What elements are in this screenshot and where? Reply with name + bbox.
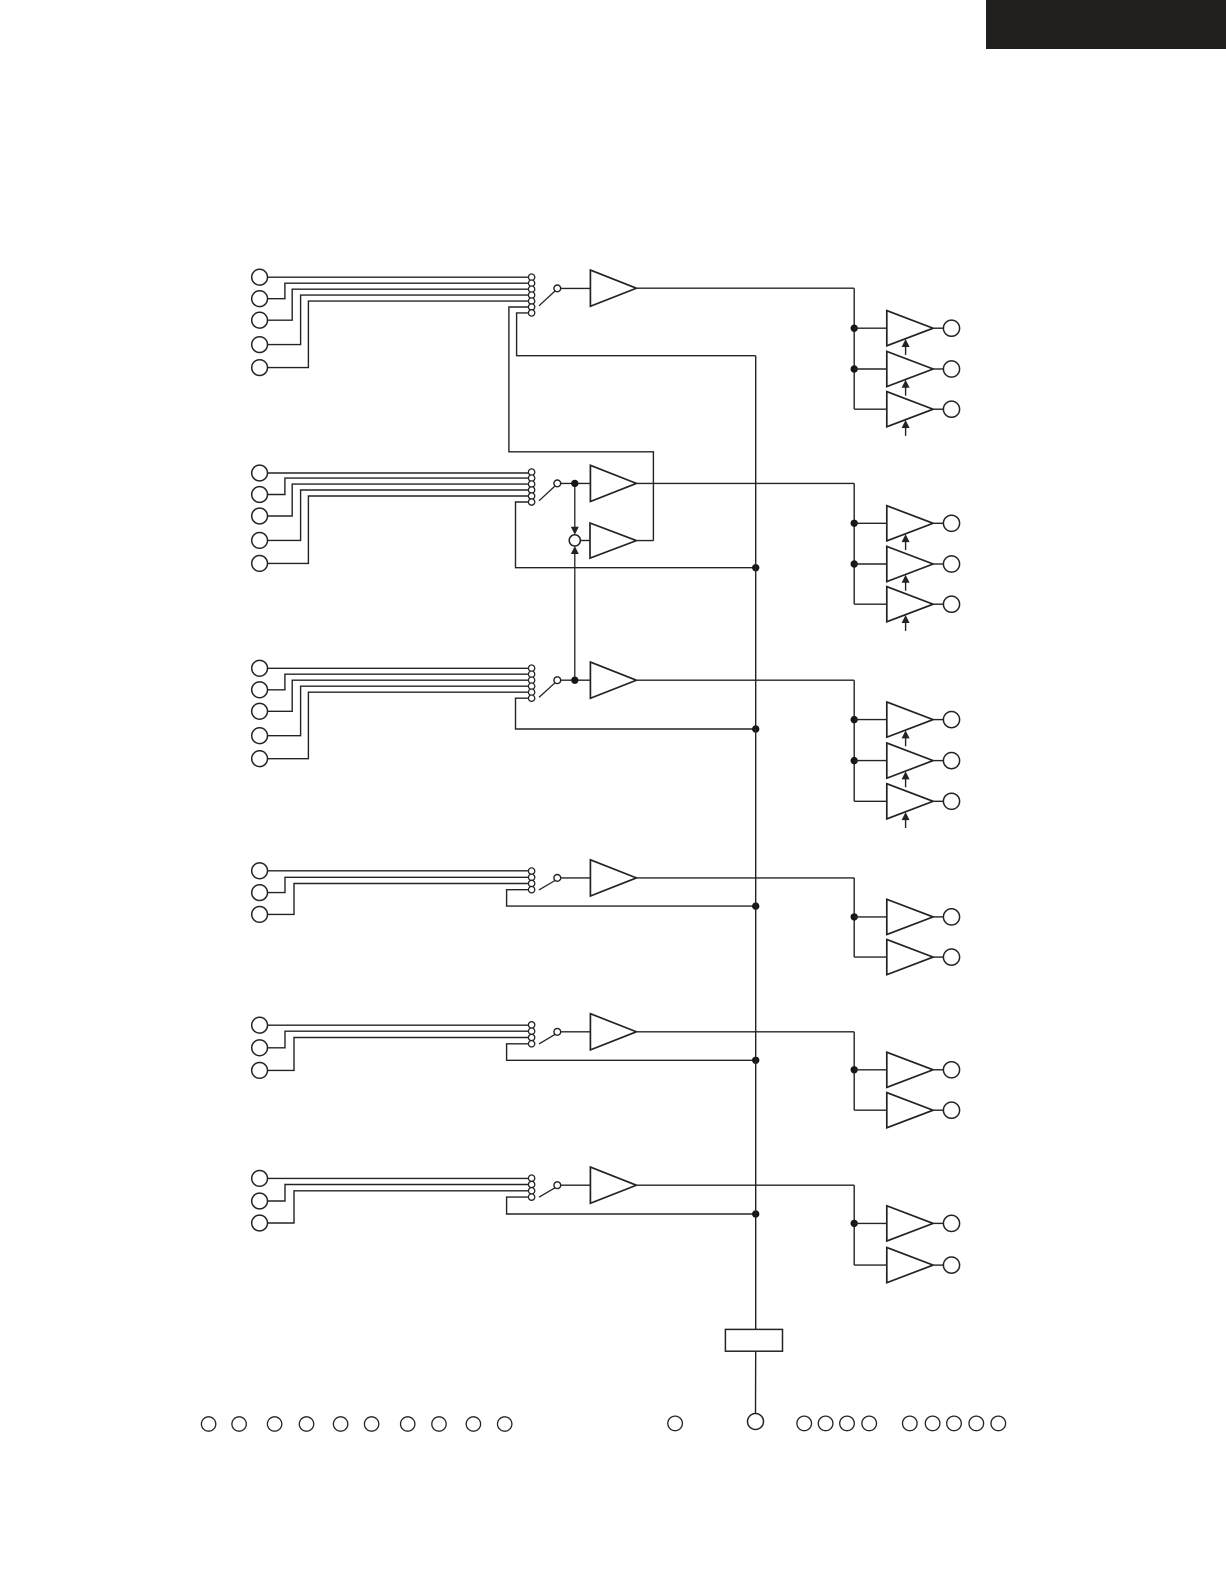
switch S3 contact 4 [528, 683, 534, 689]
switch S2 contact 1 [528, 469, 534, 475]
wire U1 output to line-out group 1 [636, 287, 854, 289]
switch S5 arm [539, 1034, 555, 1044]
wire U2A output [933, 522, 943, 524]
switch S6 contact 4 [528, 1194, 534, 1200]
node group 1 tap 1 [851, 325, 858, 332]
level control arrow U3B [905, 778, 907, 787]
wire group 2 tap 1 to buffer [854, 522, 887, 524]
wire S3 bottom contact to record bus [516, 698, 756, 729]
output buffer U1B [887, 351, 933, 386]
wire group 4 tap 2 to buffer [854, 956, 887, 958]
wire J6-3 to switch S6 contact 3 [268, 1191, 529, 1223]
wire U1B output [933, 368, 943, 370]
output buffer U1A [887, 311, 933, 346]
wire U5B output [933, 1109, 943, 1111]
level control arrow U2A [905, 541, 907, 550]
input jack J3-5 [252, 751, 268, 767]
output jack group 1-1 [943, 320, 959, 336]
bottom terminal L3 [267, 1417, 281, 1431]
output buffer U2A [887, 506, 933, 541]
input jack J4-2 [252, 885, 268, 901]
wire S4 bottom contact to record bus [507, 890, 756, 906]
buffer amp U1 [590, 270, 636, 306]
level control arrow U2C [905, 622, 907, 631]
wire U6A output [933, 1222, 943, 1224]
wire U6 output to line-out group 6 [636, 1184, 854, 1186]
node B (S3 pole junction) [571, 677, 578, 684]
input jack J2-4 [252, 533, 268, 549]
wire J3-4 to switch S3 contact 4 [268, 686, 529, 736]
wire S1 contact 6 tape monitor return loop [509, 307, 654, 541]
output buffer U3C [887, 784, 933, 819]
node group 3 tap 2 [851, 757, 858, 764]
arrowhead into changeover switch (from below) [571, 546, 579, 554]
input jack J1-5 [252, 360, 268, 376]
switch S3 contact 5 [528, 689, 534, 695]
switch S5 contact 1 [528, 1022, 534, 1028]
switch S6 contact 2 [528, 1181, 534, 1187]
wire J3-3 to switch S3 contact 3 [268, 680, 529, 711]
node record bus / S2 feed [752, 564, 759, 571]
switch S2 contact 2 [528, 475, 534, 481]
bottom terminal M1 [668, 1416, 683, 1431]
wire group 1 tap 3 to buffer [854, 408, 887, 410]
wire group 1 tap 1 to buffer [854, 327, 887, 329]
switch S2 contact 6 [528, 499, 534, 505]
wire group 3 tap 1 to buffer [854, 719, 887, 721]
wire S2 pole to buffer U2 [561, 482, 591, 484]
bottom terminal L6 [364, 1417, 378, 1431]
buffer amp U6 [590, 1167, 636, 1203]
output jack group 2-2 [943, 556, 959, 572]
wire changeover switch to node B [574, 554, 576, 677]
switch S3 arm [539, 683, 555, 698]
switch S2 arm [539, 486, 555, 501]
wire group 6 tap 1 to buffer [854, 1222, 887, 1224]
bottom terminal L4 [299, 1417, 313, 1431]
wire U6B output [933, 1264, 943, 1266]
input jack J3-4 [252, 728, 268, 744]
switch S1 contact 7 [528, 310, 534, 316]
switch S2 contact 3 [528, 481, 534, 487]
bottom terminal L7 [401, 1417, 415, 1431]
input jack J1-3 [252, 312, 268, 328]
switch S1 pole [554, 285, 561, 292]
wire S4 pole to buffer U4 [561, 877, 591, 879]
output buffer U2C [887, 587, 933, 622]
node record bus / S4 feed [752, 902, 759, 909]
node record bus / S5 feed [752, 1057, 759, 1064]
switch S1 contact 6 [528, 304, 534, 310]
wire S1 contact 7 to record bus [517, 313, 756, 356]
output jack group 2-1 [943, 515, 959, 531]
bottom terminal P4 [862, 1416, 877, 1431]
output buffer U3B [887, 743, 933, 778]
bottom terminal L10 [498, 1417, 512, 1431]
node group 2 tap 2 [851, 560, 858, 567]
wire J3-2 to switch S3 contact 2 [268, 674, 529, 690]
wire S5 pole to buffer U5 [561, 1031, 591, 1033]
output buffer U4A [887, 899, 933, 934]
wire J1-5 to switch S1 contact 5 [268, 301, 529, 368]
input jack J3-3 [252, 703, 268, 719]
output buffer U6B [887, 1248, 933, 1283]
wire J1-1 to switch S1 contact 1 [268, 276, 529, 278]
bottom terminal P3 [840, 1416, 855, 1431]
wire U3 output to line-out group 3 [636, 679, 854, 681]
switch S4 arm [539, 881, 555, 890]
switch S1 contact 3 [528, 286, 534, 292]
switch S6 contact 3 [528, 1188, 534, 1194]
switch S5 contact 3 [528, 1034, 534, 1040]
wire line-out group 5 distribution [853, 1032, 855, 1110]
switch S4 contact 1 [528, 868, 534, 874]
output jack group 5-2 [943, 1102, 959, 1118]
wire J5-3 to switch S5 contact 3 [268, 1038, 529, 1071]
input jack J6-3 [252, 1215, 268, 1231]
wire J2-1 to switch S2 contact 1 [268, 472, 529, 474]
input jack J6-2 [252, 1193, 268, 1209]
output buffer U6A [887, 1206, 933, 1241]
switch S3 contact 6 [528, 695, 534, 701]
input jack J3-2 [252, 682, 268, 698]
output buffer U5A [887, 1052, 933, 1087]
wire S2 bottom contact to record bus [516, 502, 756, 568]
wire S5 bottom contact to record bus [507, 1044, 756, 1061]
wire U4 output to line-out group 4 [636, 877, 854, 879]
terminal under T1 [748, 1414, 764, 1430]
wire J1-4 to switch S1 contact 4 [268, 295, 529, 345]
wire J4-3 to switch S4 contact 3 [268, 884, 529, 915]
node group 1 tap 2 [851, 365, 858, 372]
input jack J2-5 [252, 556, 268, 572]
node A (S2 pole junction) [571, 480, 578, 487]
switch S2 contact 5 [528, 493, 534, 499]
title block (black masked header) [986, 0, 1226, 49]
wire group 3 tap 2 to buffer [854, 760, 887, 762]
wire group 4 tap 1 to buffer [854, 916, 887, 918]
wire J2-3 to switch S2 contact 3 [268, 484, 529, 516]
switch S2 pole [554, 480, 561, 487]
wire J1-2 to switch S1 contact 2 [268, 283, 529, 299]
switch S1 contact 2 [528, 280, 534, 286]
wire group 5 tap 1 to buffer [854, 1069, 887, 1071]
switch S4 contact 2 [528, 874, 534, 880]
switch S4 contact 4 [528, 887, 534, 893]
wire J2-2 to switch S2 contact 2 [268, 478, 529, 494]
wire S3 pole to buffer U3 [561, 679, 591, 681]
wire group 1 tap 2 to buffer [854, 368, 887, 370]
buffer amp U5 [590, 1014, 636, 1050]
wire U4B output [933, 956, 943, 958]
wire U2B output [933, 563, 943, 565]
wire group 5 tap 2 to buffer [854, 1109, 887, 1111]
node group 6 tap 1 [851, 1220, 858, 1227]
power transformer T1 [725, 1329, 782, 1351]
wire U3B output [933, 760, 943, 762]
output jack group 6-2 [943, 1257, 959, 1273]
bottom terminal L9 [466, 1417, 480, 1431]
bottom terminal P1 [797, 1416, 812, 1431]
node record bus / S6 feed [752, 1210, 759, 1217]
output jack group 4-2 [943, 949, 959, 965]
wire J1-3 to switch S1 contact 3 [268, 289, 529, 320]
output buffer U3A [887, 702, 933, 737]
wire J4-1 to switch S4 contact 1 [268, 870, 529, 872]
output jack group 3-1 [943, 712, 959, 728]
switch S5 pole [554, 1028, 561, 1035]
switch S5 contact 2 [528, 1028, 534, 1034]
output buffer U5B [887, 1093, 933, 1128]
switch S3 contact 3 [528, 677, 534, 683]
wire U2R output up to S1 contact 6 loop [636, 540, 653, 542]
wire J6-1 to switch S6 contact 1 [268, 1177, 529, 1179]
level control arrow U1C [905, 427, 907, 436]
bottom terminal Q3 [947, 1416, 962, 1431]
wire line-out group 3 distribution [853, 680, 855, 801]
input jack J2-3 [252, 508, 268, 524]
output jack group 1-3 [943, 401, 959, 417]
wire S6 pole to buffer U6 [561, 1184, 591, 1186]
wire J4-2 to switch S4 contact 2 [268, 877, 529, 892]
output jack group 2-3 [943, 596, 959, 612]
node group 3 tap 1 [851, 716, 858, 723]
input jack J3-1 [252, 660, 268, 676]
wire U2 output to line-out group 2 [636, 482, 854, 484]
output buffer U2B [887, 546, 933, 581]
record bus wire [755, 356, 757, 1330]
buffer amp U3 [590, 662, 636, 698]
wire U1A output [933, 327, 943, 329]
changeover switch SW-M common [569, 535, 580, 546]
wire J3-5 to switch S3 contact 5 [268, 692, 529, 759]
wire J6-2 to switch S6 contact 2 [268, 1185, 529, 1202]
switch S1 arm [539, 291, 555, 306]
input jack J2-2 [252, 487, 268, 503]
wire line-out group 1 distribution [853, 288, 855, 409]
switch S6 arm [539, 1188, 555, 1197]
switch S4 pole [554, 875, 561, 882]
bottom terminal L1 [201, 1417, 215, 1431]
node group 5 tap 1 [851, 1066, 858, 1073]
output buffer U1C [887, 392, 933, 427]
wire group 2 tap 3 to buffer [854, 603, 887, 605]
input jack J4-3 [252, 907, 268, 923]
output jack group 6-1 [943, 1215, 959, 1231]
switch S6 pole [554, 1182, 561, 1189]
level control arrow U1B [905, 387, 907, 396]
wire S6 bottom contact to record bus [507, 1197, 756, 1214]
input jack J6-1 [252, 1171, 268, 1187]
wire J2-5 to switch S2 contact 5 [268, 496, 529, 563]
bottom terminal L8 [432, 1417, 446, 1431]
bottom terminal Q1 [903, 1416, 918, 1431]
bottom terminal Q4 [969, 1416, 984, 1431]
wire U5 output to line-out group 5 [636, 1031, 854, 1033]
input jack J4-1 [252, 863, 268, 879]
level control arrow U3A [905, 737, 907, 746]
output jack group 4-1 [943, 909, 959, 925]
wire record bus to T1 [755, 1351, 757, 1413]
input jack J5-2 [252, 1040, 268, 1056]
bottom terminal L2 [232, 1417, 246, 1431]
input jack J1-1 [252, 269, 268, 285]
switch S1 contact 5 [528, 298, 534, 304]
switch S4 contact 3 [528, 880, 534, 886]
bottom terminal L5 [333, 1417, 347, 1431]
input jack J2-1 [252, 465, 268, 481]
switch S1 contact 4 [528, 292, 534, 298]
wire changeover switch to tape return buffer U2R input [580, 540, 590, 542]
wire U3C output [933, 800, 943, 802]
buffer amp U2 [590, 465, 636, 501]
wire group 6 tap 2 to buffer [854, 1264, 887, 1266]
switch S3 contact 2 [528, 671, 534, 677]
output jack group 1-2 [943, 361, 959, 377]
wire line-out group 4 distribution [853, 878, 855, 957]
switch S3 contact 1 [528, 665, 534, 671]
switch S1 contact 1 [528, 274, 534, 280]
input jack J1-4 [252, 337, 268, 353]
switch S5 contact 4 [528, 1041, 534, 1047]
wire U1C output [933, 408, 943, 410]
wire U5A output [933, 1069, 943, 1071]
node record bus / S3 feed [752, 725, 759, 732]
output jack group 5-1 [943, 1062, 959, 1078]
bottom terminal Q2 [925, 1416, 940, 1431]
switch S2 contact 4 [528, 487, 534, 493]
wire group 2 tap 2 to buffer [854, 563, 887, 565]
output jack group 3-3 [943, 793, 959, 809]
wire U3A output [933, 719, 943, 721]
input jack J1-2 [252, 291, 268, 307]
output jack group 3-2 [943, 753, 959, 769]
wire node A down to monitor changeover switch [574, 487, 576, 527]
wire J5-2 to switch S5 contact 2 [268, 1031, 529, 1048]
input jack J5-1 [252, 1017, 268, 1033]
output buffer U4B [887, 940, 933, 975]
switch S3 pole [554, 677, 561, 684]
node group 4 tap 1 [851, 913, 858, 920]
wire U2C output [933, 603, 943, 605]
switch S6 contact 1 [528, 1175, 534, 1181]
wire J5-1 to switch S5 contact 1 [268, 1024, 529, 1026]
tape return buffer U2R [590, 523, 636, 558]
wire S1 pole to buffer U1 [561, 287, 591, 289]
wire U4A output [933, 916, 943, 918]
wire group 3 tap 3 to buffer [854, 800, 887, 802]
level control arrow U3C [905, 819, 907, 828]
wire J3-1 to switch S3 contact 1 [268, 667, 529, 669]
wire J2-4 to switch S2 contact 4 [268, 490, 529, 540]
node group 2 tap 1 [851, 520, 858, 527]
level control arrow U1A [905, 346, 907, 355]
bottom terminal P2 [818, 1416, 833, 1431]
arrowhead into changeover switch (from above) [571, 527, 579, 535]
bottom terminal Q5 [991, 1416, 1006, 1431]
wire line-out group 6 distribution [853, 1185, 855, 1265]
wire line-out group 2 distribution [853, 483, 855, 604]
buffer amp U4 [590, 860, 636, 896]
input jack J5-3 [252, 1063, 268, 1079]
level control arrow U2B [905, 582, 907, 591]
